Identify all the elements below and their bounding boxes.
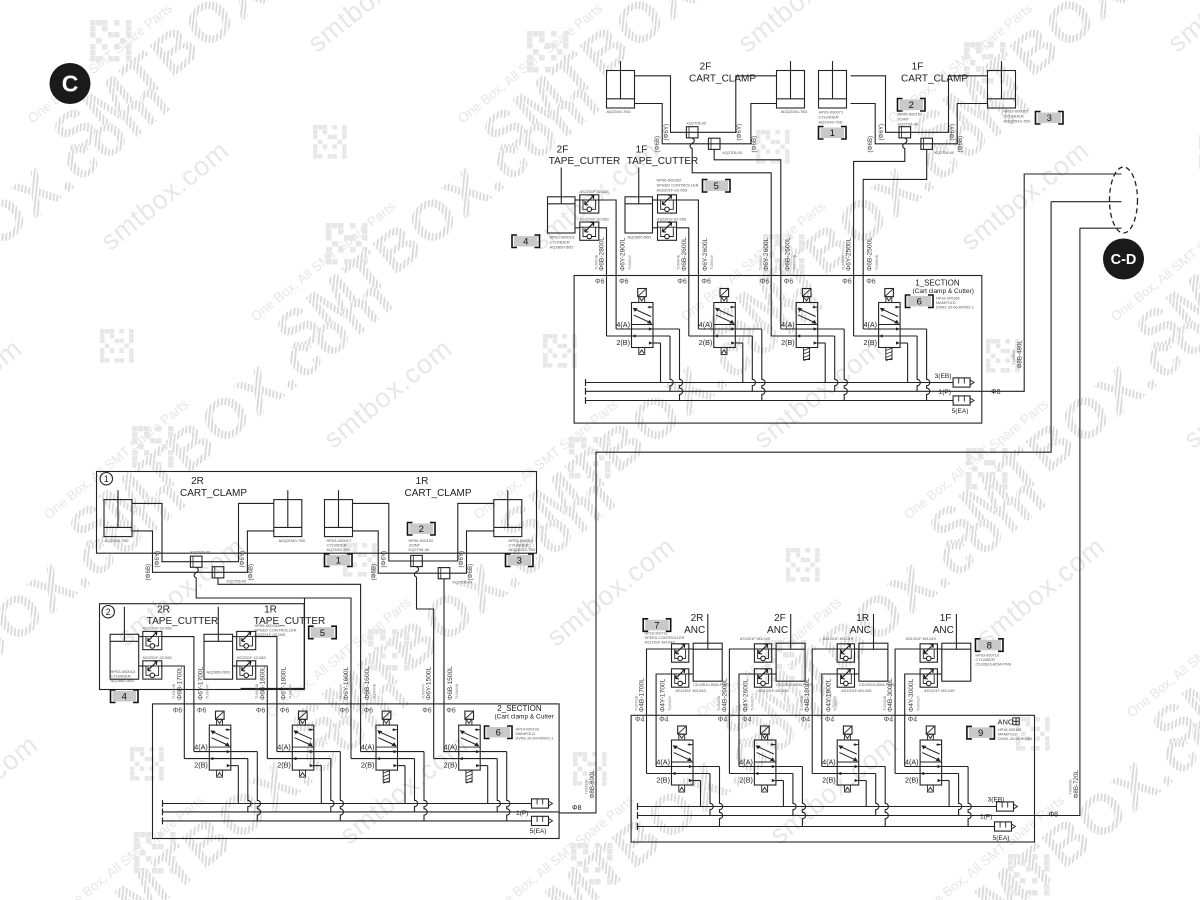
tee fitting 1R Y KQ2T06-00 (411, 555, 423, 566)
speed controller 1R cutter top (AS2201F-02-06S) (237, 631, 256, 649)
svg-text:TU0604Y: TU0604Y (628, 254, 632, 270)
silencer 2_SECTION 5(EA) (532, 816, 553, 825)
svg-text:2(B): 2(B) (822, 776, 836, 785)
cylinder 2R clamp right (ADQ2D40-75D) (274, 490, 302, 536)
valve 1_SECTION valve 2 (1F cutter) (689, 289, 765, 401)
wire 2F Y tee to section valve3 (690, 138, 771, 336)
svg-text:4: 4 (523, 237, 528, 248)
speed controller 2F cutter bottom (AS2201F-02-06S) (580, 222, 599, 240)
wire 2R cutter top ctl to 2_SECTION valve1 A (162, 637, 194, 752)
svg-text:ANC: ANC (998, 718, 1014, 727)
wire 2F ANC top ctl to ANC valve B (729, 649, 754, 774)
wire label Φ8B-720L (1068, 770, 1080, 799)
svg-text:1F: 1F (940, 613, 952, 624)
part label HP06-900152 JOINT (409, 538, 434, 552)
svg-text:Φ8B-480L: Φ8B-480L (1017, 340, 1024, 369)
svg-text:2(B): 2(B) (699, 338, 713, 347)
svg-text:KQ2T06-00: KQ2T06-00 (723, 151, 743, 155)
silencer ANC 3(EB) (997, 802, 1018, 811)
svg-text:1(P): 1(P) (980, 814, 992, 821)
svg-text:Φ4: Φ4 (884, 717, 894, 724)
svg-text:Φ6B-2800L: Φ6B-2800L (599, 237, 606, 271)
svg-text:2R: 2R (157, 605, 170, 616)
circled number 2 (102, 606, 114, 618)
svg-text:TU0604B: TU0604B (594, 254, 598, 270)
svg-text:2: 2 (106, 607, 111, 617)
wire P supply ANC to C-D line (1035, 228, 1122, 815)
label 1_SECTION (913, 279, 974, 296)
svg-text:KQ2T06-00: KQ2T06-00 (409, 547, 430, 552)
silencer 1_SECTION 3(EB) (953, 378, 974, 387)
svg-text:5(EA): 5(EA) (530, 828, 547, 835)
valve 2_SECTION valve 2 (1R cutter) (267, 711, 343, 821)
svg-text:AS1201F-M3-04S: AS1201F-M3-04S (645, 641, 676, 645)
svg-text:5: 5 (320, 628, 325, 639)
svg-text:2R: 2R (691, 613, 704, 624)
svg-text:Φ6: Φ6 (340, 708, 350, 715)
svg-text:(Φ6B): (Φ6B) (751, 136, 758, 153)
wire 1F cutter top ctl to section valve2 A (677, 200, 699, 329)
valve 1_SECTION valve 3 (2F clamp) (771, 289, 847, 401)
valve 1_SECTION valve 1 (2F cutter) (607, 289, 683, 401)
box 1_SECTION manifold (574, 276, 982, 424)
label 2R CART_CLAMP (180, 476, 247, 499)
wire label &#934;4B-3000L (883, 678, 894, 712)
svg-text:AS1201F-M3-04S: AS1201F-M3-04S (841, 689, 872, 693)
svg-text:2(B): 2(B) (277, 761, 291, 770)
label 1R CART_CLAMP (404, 476, 471, 499)
speed controller 1F cutter top (AS2201F-02-06S) (658, 195, 677, 213)
part label HP14-000193 MANIFOLD (516, 728, 554, 741)
wire label &#934;4B-1700L (634, 678, 645, 712)
svg-text:8: 8 (987, 640, 992, 651)
cylinder 1R ANC (CDJ2B10-8DM-PINS) (859, 614, 888, 681)
wire label Φ8B-600L (585, 770, 597, 799)
silencer ANC 5(EA) (995, 822, 1016, 831)
svg-text:4(A): 4(A) (822, 758, 836, 767)
svg-text:Φ4: Φ4 (801, 717, 811, 724)
label 2F CART_CLAMP (689, 62, 756, 85)
svg-text:Φ4: Φ4 (718, 717, 728, 724)
svg-text:HP16-000162: HP16-000162 (998, 728, 1021, 732)
svg-text:DVM1-20-04-R00N1-1: DVM1-20-04-R00N1-1 (516, 737, 554, 741)
wire 1F ANC top ctl to ANC valve B (895, 649, 920, 774)
svg-text:2(B): 2(B) (739, 776, 753, 785)
svg-text:AS2201F-02-06S: AS2201F-02-06S (237, 656, 267, 660)
wire 2R Y tee to 2_SECTION valve3 (194, 567, 351, 758)
numbered label box 5 (703, 180, 731, 193)
svg-text:TU0806B: TU0806B (585, 779, 589, 795)
svg-text:6: 6 (917, 297, 922, 308)
svg-text:Φ6Y-2600L: Φ6Y-2600L (763, 237, 770, 271)
svg-text:AS2201F-02-06S: AS2201F-02-06S (580, 190, 610, 194)
svg-text:TU0402Y: TU0402Y (751, 695, 755, 711)
label 1R ANC (850, 613, 871, 636)
part label HP03-000072 (1004, 109, 1031, 124)
label 1F CART_CLAMP (901, 62, 968, 85)
wire label &#934;4Y-1800L (825, 678, 837, 712)
svg-text:HP14-000193: HP14-000193 (516, 728, 539, 732)
svg-text:Φ8: Φ8 (1049, 812, 1059, 819)
wire 1R ANC bottom ctl to ANC valve A (822, 674, 837, 767)
speed controller 2R ANC top (AS1201F-M3-04S) (672, 644, 689, 662)
label ANC用 (998, 718, 1020, 727)
svg-text:AQ2D40-75D: AQ2D40-75D (607, 109, 631, 114)
wire 1R ANC top ctl to ANC valve B (812, 649, 837, 774)
svg-text:ADQ2D43-75D: ADQ2D43-75D (1004, 119, 1031, 124)
part label HP03-000013 (111, 669, 136, 683)
svg-text:TU0604B: TU0604B (172, 683, 176, 699)
wire label &#934;6B-2500L (867, 237, 879, 271)
wire label &#934;6Y-1700L (197, 666, 209, 700)
part label HP03-000013 (550, 235, 575, 250)
svg-text:KQ2T06-00: KQ2T06-00 (191, 551, 211, 555)
cylinder 2R ANC (CDJ2B10-8DM-PINS) (693, 614, 722, 681)
svg-text:4(A): 4(A) (864, 320, 878, 329)
numbered label box 1 (819, 127, 847, 140)
part label HP16-900711 SPEED CONTROLLER (645, 632, 685, 645)
svg-text:CART_CLAMP: CART_CLAMP (180, 488, 247, 499)
svg-text:Φ6: Φ6 (422, 708, 432, 715)
svg-text:TU0402Y: TU0402Y (834, 695, 838, 711)
svg-text:Φ6B-1700L: Φ6B-1700L (176, 666, 183, 700)
svg-text:TU0604Y: TU0604Y (759, 254, 763, 270)
numbered label box 2 (898, 99, 926, 112)
cylinder 2R clamp left (AQ2D40-75D) (104, 490, 132, 536)
svg-text:Φ6B-1500L: Φ6B-1500L (447, 666, 454, 700)
svg-text:Φ6: Φ6 (619, 279, 629, 286)
svg-text:Φ6: Φ6 (364, 708, 374, 715)
wire 2R cutter bottom ctl to 2_SECTION valve1 B (162, 666, 185, 759)
svg-text:KQ2T06-00: KQ2T06-00 (227, 580, 247, 584)
svg-text:5(EA): 5(EA) (952, 408, 969, 415)
svg-text:Φ6Y-2500L: Φ6Y-2500L (846, 237, 853, 271)
svg-text:TU0604B: TU0604B (255, 683, 259, 699)
svg-text:2(B): 2(B) (656, 776, 670, 785)
svg-text:HP03-900710: HP03-900710 (976, 654, 999, 658)
numbered label box 4 (512, 235, 540, 248)
svg-text:Φ4Y-3000L: Φ4Y-3000L (908, 678, 915, 712)
svg-text:2(B): 2(B) (361, 761, 375, 770)
svg-text:Φ6B-2600L: Φ6B-2600L (784, 237, 791, 271)
svg-text:Φ4Y-2600L: Φ4Y-2600L (743, 678, 750, 712)
cylinder 1F cutter (AQ2B50-50D) (625, 168, 653, 234)
svg-text:(Φ6Y): (Φ6Y) (878, 124, 885, 141)
wire label &#934;6B-1500L (447, 666, 459, 700)
valve ANC valve 4 (1F) (895, 726, 971, 827)
svg-text:4(A): 4(A) (616, 320, 630, 329)
svg-text:Φ8B-600L: Φ8B-600L (589, 770, 596, 799)
svg-text:2(B): 2(B) (444, 761, 458, 770)
svg-text:4(A): 4(A) (739, 758, 753, 767)
svg-text:ADQ2D40-75D: ADQ2D40-75D (279, 538, 306, 543)
svg-text:TU0604B: TU0604B (793, 254, 797, 270)
speed controller 1R ANC top (AS1201F-M3-04S) (837, 644, 854, 662)
svg-text:2F: 2F (557, 145, 569, 156)
wire 1F Y tee to section valve4 (854, 138, 907, 336)
svg-text:AS2201F-02-06S: AS2201F-02-06S (143, 627, 173, 631)
svg-text:Φ4Y-1700L: Φ4Y-1700L (660, 678, 667, 712)
svg-text:CYLINDER: CYLINDER (976, 658, 995, 662)
svg-text:Φ4: Φ4 (825, 717, 835, 724)
wire 2R clamp B-line (132, 531, 274, 572)
svg-text:Φ6: Φ6 (677, 279, 687, 286)
stub cylinder to controllers (772, 648, 776, 650)
wire 1R Y tee to 2_SECTION valve4 (414, 567, 433, 759)
svg-text:AQ2B50-50D: AQ2B50-50D (628, 235, 652, 240)
svg-text:CDJ2B10-8DM-PINS: CDJ2B10-8DM-PINS (976, 663, 1012, 667)
svg-text:(Φ6Y): (Φ6Y) (239, 551, 246, 568)
cylinder 1R clamp right (ADQ2D40-75D) (494, 490, 522, 536)
cylinder 2F clamp right (ADQ2D40-75D) (777, 61, 805, 108)
cylinder 1F ANC (CDJ2B10-8DM-PINS) (942, 614, 971, 681)
svg-text:TU0402Y: TU0402Y (916, 695, 920, 711)
group box 1 (R cart clamps) (97, 472, 537, 554)
svg-text:Φ6: Φ6 (256, 708, 266, 715)
svg-text:MANIFOLD: MANIFOLD (936, 301, 956, 305)
wire label &#934;4Y-2600L (743, 678, 755, 712)
wire label &#934;6B-2600L (784, 237, 796, 271)
svg-text:AS2201F-02-06S: AS2201F-02-06S (657, 188, 688, 193)
speed controller 2F ANC top (AS1201F-M3-04S) (754, 644, 771, 662)
valve 2_SECTION valve 1 (2R cutter) (184, 711, 260, 821)
circled number 1 (100, 473, 112, 485)
stub cylinder to controllers (689, 648, 693, 650)
svg-text:(Cart clamp & Cutter): (Cart clamp & Cutter) (913, 288, 974, 295)
svg-text:Φ6Y-1700L: Φ6Y-1700L (197, 666, 204, 700)
wire label &#934;4B-2600L (717, 678, 728, 712)
svg-text:KQ2T06-00: KQ2T06-00 (935, 151, 955, 155)
wire 1R clamp Y-line (353, 503, 494, 561)
svg-text:4(A): 4(A) (656, 758, 670, 767)
wire P supply 1_SECTION to C-D line (982, 174, 1122, 391)
part label HP03-000012 (509, 538, 536, 552)
part label HP03-900710 CYLINDER (976, 654, 1012, 667)
svg-text:Φ4: Φ4 (908, 717, 918, 724)
cylinder 2F cutter (AQ2B50-50D) (548, 168, 576, 234)
valve 2_SECTION valve 4 (1R clamp) (434, 711, 510, 821)
svg-text:(Φ6Y): (Φ6Y) (458, 551, 465, 568)
numbered label box 9 (967, 726, 995, 739)
numbered label box 3 (506, 554, 534, 567)
svg-text:ADQ2D40-75D: ADQ2D40-75D (509, 547, 536, 552)
wire label &#934;4Y-1700L (660, 678, 672, 712)
stub cylinder to controllers 1R (233, 636, 237, 638)
svg-text:4(A): 4(A) (781, 320, 795, 329)
valve 1_SECTION valve 4 (1F clamp) (854, 289, 930, 401)
wire label &#934;6B-1700L (172, 666, 183, 700)
wire label &#934;6B-2800L (594, 237, 605, 271)
connector ellipse to sheet C-D (1110, 167, 1138, 233)
svg-text:CART_CLAMP: CART_CLAMP (689, 74, 756, 85)
svg-text:4(A): 4(A) (905, 758, 919, 767)
svg-text:1F: 1F (636, 145, 648, 156)
svg-text:AS2201F-02-06S: AS2201F-02-06S (657, 218, 687, 222)
svg-text:HP16-000166: HP16-000166 (936, 297, 959, 301)
svg-text:2: 2 (909, 100, 914, 111)
svg-text:TU0402Y: TU0402Y (668, 695, 672, 711)
stub cylinder to controllers (937, 648, 941, 650)
svg-text:ANC: ANC (933, 625, 954, 636)
svg-text:ANC: ANC (684, 625, 705, 636)
svg-text:TU0604Y: TU0604Y (422, 683, 426, 699)
svg-text:TU0604Y: TU0604Y (339, 683, 343, 699)
svg-text:Φ6Y-2800L: Φ6Y-2800L (620, 237, 627, 271)
svg-text:(Φ6B): (Φ6B) (867, 136, 874, 153)
branch wire to 1R cutter (241, 598, 305, 688)
wire label Φ8B-480L (1012, 340, 1024, 369)
wire 1F clamp Y-line (851, 76, 988, 133)
svg-text:9: 9 (978, 728, 983, 739)
svg-text:Φ6: Φ6 (760, 279, 770, 286)
svg-text:(Φ6B): (Φ6B) (248, 564, 255, 581)
svg-text:3(EB): 3(EB) (988, 796, 1005, 803)
svg-text:TU0402B: TU0402B (800, 695, 804, 711)
svg-text:5(EA): 5(EA) (993, 835, 1010, 842)
svg-text:1F: 1F (912, 62, 924, 73)
cylinder 1F clamp right (ADQ2D43-75D) (988, 61, 1016, 108)
svg-text:(Φ6Y): (Φ6Y) (381, 551, 388, 568)
svg-text:AQ2D40-75D: AQ2D40-75D (105, 538, 129, 543)
svg-text:TU0604B: TU0604B (372, 683, 376, 699)
svg-text:TU0806B: TU0806B (1012, 349, 1016, 365)
svg-text:3: 3 (517, 556, 522, 567)
wire P supply 2_SECTION to C-D line (559, 202, 1121, 813)
svg-text:2R: 2R (191, 476, 204, 487)
wire label &#934;6B-1600L (364, 666, 376, 700)
svg-text:KQ2T06-00: KQ2T06-00 (687, 122, 707, 126)
wire 2F cutter top ctl to section valve1 A (599, 200, 616, 329)
svg-text:3(EB): 3(EB) (935, 373, 952, 380)
bus lines ANC (EB / P / EA) (638, 803, 1035, 830)
wire 2R ANC top ctl to ANC valve B (647, 649, 672, 774)
wire 1R cutter bottom ctl to 2_SECTION valve2 B (256, 666, 268, 759)
svg-text:ANC: ANC (850, 625, 871, 636)
svg-text:(Φ6Y): (Φ6Y) (154, 551, 161, 568)
svg-text:HP16-900711: HP16-900711 (645, 632, 668, 636)
label 2F ANC (767, 613, 788, 636)
cylinder 1F clamp left (AQ2D40-75D) (819, 61, 847, 108)
valve ANC valve 3 (1R) (812, 726, 888, 827)
numbered label box 1 (325, 554, 353, 567)
svg-text:Φ6: Φ6 (701, 279, 711, 286)
svg-text:5: 5 (714, 181, 719, 192)
svg-text:1(P): 1(P) (939, 389, 951, 396)
wire label &#934;6Y-2600L (702, 237, 714, 271)
tee fitting 1F B KQ2T06-00 (921, 138, 933, 149)
svg-text:2(B): 2(B) (864, 338, 878, 347)
stub cylinder to controllers (855, 648, 859, 650)
svg-text:2(B): 2(B) (781, 338, 795, 347)
svg-text:Φ6: Φ6 (842, 279, 852, 286)
svg-text:Φ4: Φ4 (659, 717, 669, 724)
svg-text:Φ4: Φ4 (635, 717, 645, 724)
svg-text:Φ4B-3000L: Φ4B-3000L (887, 678, 894, 712)
svg-text:CART_CLAMP: CART_CLAMP (901, 74, 968, 85)
numbered label box 4 (111, 690, 139, 703)
svg-text:(Φ6Y): (Φ6Y) (949, 124, 956, 141)
wire 1F B tee to section valve4 (863, 149, 927, 329)
svg-text:1: 1 (830, 128, 835, 139)
tee fitting 2F B KQ2T06-00 (708, 138, 720, 149)
svg-text:TU0402B: TU0402B (883, 695, 887, 711)
speed controller 2R ANC bottom (AS1201F-M3-04S) (672, 669, 689, 687)
wire 2F clamp Y-line (635, 76, 777, 133)
svg-text:4(A): 4(A) (361, 743, 375, 752)
numbered label box 2 (408, 523, 436, 536)
svg-text:AQ2B50-50D: AQ2B50-50D (111, 678, 135, 683)
box ANC manifold (631, 715, 1034, 842)
svg-text:Φ8B-720L: Φ8B-720L (1073, 770, 1080, 799)
svg-text:(Φ6B): (Φ6B) (957, 136, 964, 153)
svg-text:AS1201F-M3-04S: AS1201F-M3-04S (758, 689, 789, 693)
wire 2R B tee to 2_SECTION valve3 (218, 578, 361, 752)
svg-text:1: 1 (336, 556, 341, 567)
svg-text:Φ6: Φ6 (595, 279, 605, 286)
svg-text:AQ2D40-75D: AQ2D40-75D (327, 547, 351, 552)
svg-text:Φ8: Φ8 (991, 389, 1001, 396)
numbered label box 6 (906, 295, 934, 308)
numbered label box 7 (643, 619, 671, 632)
svg-text:TU0604Y: TU0604Y (710, 254, 714, 270)
numbered label box 6 (485, 726, 513, 739)
svg-text:TU0604Y: TU0604Y (289, 683, 293, 699)
wire 1R cutter top ctl to 2_SECTION valve2 A (256, 637, 277, 752)
wire 2F ANC bottom ctl to ANC valve A (739, 674, 754, 767)
svg-text:Φ6B-2500L: Φ6B-2500L (867, 237, 874, 271)
speed controller 1F ANC bottom (AS1201F-M3-04S) (920, 669, 937, 687)
svg-text:TU0402B: TU0402B (634, 695, 638, 711)
tee fitting 1F Y KQ2T06-00 (899, 127, 911, 138)
bus lines 1_SECTION (EB / P / EA) (586, 379, 982, 404)
label 2F TAPE_CUTTER (549, 145, 621, 168)
part label HP16-000162 MANIFOLD (998, 728, 1033, 741)
svg-text:MANIFOLD: MANIFOLD (998, 733, 1018, 737)
speed controller 2F ANC bottom (AS1201F-M3-04S) (754, 669, 771, 687)
svg-text:TU0604Y: TU0604Y (206, 683, 210, 699)
numbered label box 3 (1036, 112, 1064, 125)
silencer 1_SECTION 5(EA) (953, 396, 974, 405)
section badge C (50, 63, 91, 104)
svg-text:6: 6 (496, 728, 501, 739)
svg-text:Φ6Y-1500L: Φ6Y-1500L (426, 666, 433, 700)
svg-text:MANIFOLD: MANIFOLD (516, 732, 536, 736)
svg-text:TU0604B: TU0604B (455, 683, 459, 699)
svg-text:DVM1-20-06-R00N1-1: DVM1-20-06-R00N1-1 (936, 306, 974, 310)
svg-text:3: 3 (1047, 113, 1052, 124)
group box 2 (R tape cutters) (100, 604, 305, 690)
svg-text:C: C (62, 71, 79, 97)
speed controller 2R cutter bottom (AS2201F-02-06S) (143, 661, 162, 679)
label 2R TAPE_CUTTER (147, 605, 219, 628)
label 2R ANC (684, 613, 705, 636)
tee fitting 2R Y KQ2T06-00 (190, 556, 202, 567)
svg-text:(Cart clamp & Cutter: (Cart clamp & Cutter (495, 714, 555, 721)
wire 2F B tee to section valve3 (714, 149, 781, 329)
cylinder 1R cutter (AQ2B50-50D) (204, 607, 233, 679)
svg-text:Φ8: Φ8 (572, 805, 582, 812)
svg-text:SPEED CONTROLLER: SPEED CONTROLLER (645, 636, 685, 640)
numbered label box 8 (976, 639, 1004, 652)
svg-text:1: 1 (104, 474, 109, 484)
wire label &#934;6Y-2800L (620, 237, 632, 271)
speed controller 1F ANC top (AS1201F-M3-04S) (920, 644, 937, 662)
wire label &#934;4Y-3000L (908, 678, 920, 712)
wire 1F ANC bottom ctl to ANC valve A (905, 674, 920, 767)
svg-text:TAPE_CUTTER: TAPE_CUTTER (549, 156, 621, 167)
svg-text:AS1201F-M3-04S: AS1201F-M3-04S (676, 689, 707, 693)
svg-text:Φ4B-2600L: Φ4B-2600L (721, 678, 728, 712)
